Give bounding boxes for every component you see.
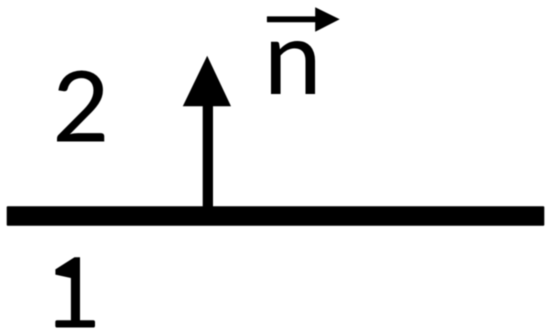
vector overline arrow shaft bbox=[267, 16, 317, 22]
medium label 2 bbox=[57, 71, 104, 142]
medium label 1 bbox=[55, 257, 95, 327]
normal vector shaft bbox=[203, 103, 213, 210]
vector overline arrowhead bbox=[315, 7, 340, 32]
normal vector arrowhead bbox=[183, 56, 231, 106]
interface line bbox=[7, 206, 545, 226]
vector symbol n bbox=[271, 41, 315, 94]
